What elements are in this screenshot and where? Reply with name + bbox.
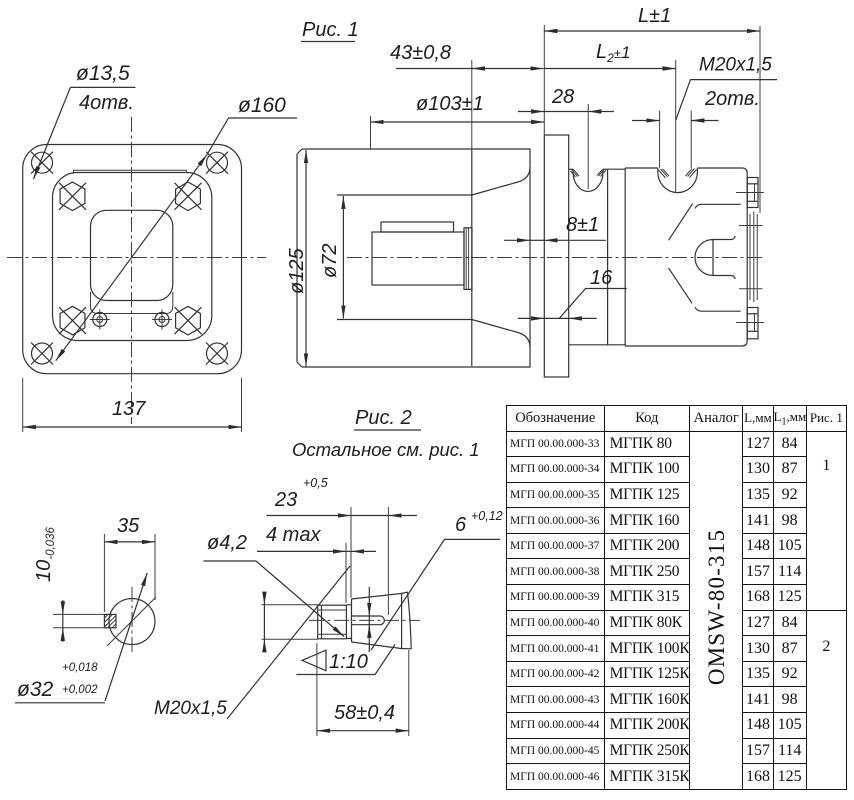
gasket/body rounded outline — [53, 173, 212, 341]
taper 1:10 cone lower — [352, 642, 402, 649]
rear bottom boss — [747, 308, 758, 339]
gasket top parting notch — [74, 170, 187, 172]
dimension 4max (outside arrows) — [257, 550, 346, 552]
svg-text:ø72: ø72 — [319, 244, 341, 278]
central opening rounded square — [91, 210, 173, 300]
title underline — [301, 41, 355, 43]
dimension o125 vertical — [305, 150, 307, 367]
flange outer square outline — [23, 145, 242, 374]
M20 diameter dimension (outside arrows) — [263, 593, 265, 605]
svg-text:10-0,036: 10-0,036 — [33, 527, 57, 582]
cavity lower line — [695, 307, 741, 311]
dimension 43+-0,8 line — [472, 68, 544, 70]
plate hole centerline lower — [739, 288, 763, 290]
o4,2 leader — [256, 561, 344, 637]
rear valve plate — [750, 212, 757, 303]
corner hole top-left (o13,5) — [31, 152, 53, 174]
svg-text:58±0,4: 58±0,4 — [334, 702, 395, 724]
shaft key — [381, 222, 454, 232]
bell inner bore face — [471, 150, 473, 366]
taper label underline and leader — [296, 645, 395, 675]
flange face extension line — [543, 25, 545, 135]
svg-text:ø125: ø125 — [286, 248, 308, 294]
corner hole bottom-right — [206, 343, 228, 365]
flange horizontal centerline — [7, 257, 266, 259]
dimension L2+-1 line — [544, 68, 675, 70]
svg-text:6: 6 — [455, 514, 467, 536]
svg-text:43±0,8: 43±0,8 — [390, 42, 451, 64]
main axis centerline — [347, 257, 763, 259]
dimension 16 (outside arrows) — [518, 317, 544, 319]
hex bolt top-left — [59, 182, 86, 211]
shaft section circle — [109, 599, 155, 645]
port 2 thread recess on housing (M20x1,5) — [658, 168, 698, 193]
L right extension line — [759, 26, 761, 213]
dimension 28 (outside arrows) — [518, 111, 544, 113]
o72 bore top line — [337, 194, 472, 196]
svg-text:M20x1,5: M20x1,5 — [154, 698, 227, 719]
vertical analog label OMSW-80-315 — [704, 529, 730, 685]
svg-text:23: 23 — [274, 489, 297, 511]
M20 label shelf and leader — [676, 80, 777, 120]
35 extension lines — [103, 534, 105, 612]
svg-text:+0,5: +0,5 — [303, 476, 328, 490]
svg-text:ø32: ø32 — [17, 678, 54, 701]
keyway extension lines — [53, 613, 104, 615]
taper symbol triangle — [302, 650, 326, 671]
o32 label underline — [15, 702, 105, 704]
bell cone upper — [472, 167, 530, 195]
circle vertical centerline — [131, 587, 133, 655]
bottom pocket line between small bolts — [91, 292, 173, 314]
o13,5 label shelf and leader — [34, 87, 136, 179]
137 extension lines — [22, 378, 24, 432]
bell cone lower — [472, 320, 530, 348]
58 extension lines — [316, 643, 318, 736]
relief neck groove — [346, 605, 351, 639]
port1 center extension line — [587, 104, 589, 189]
svg-text:137: 137 — [112, 398, 146, 420]
threaded end M20 — [318, 605, 347, 639]
shaft large end block — [401, 592, 411, 649]
dimension 6+0,12 (outside arrows) — [368, 587, 370, 616]
output shaft — [372, 232, 464, 285]
shaft axis centerline — [309, 619, 420, 621]
port2 center extension line — [675, 60, 677, 193]
svg-text:4 max: 4 max — [266, 524, 321, 546]
svg-text:35: 35 — [117, 515, 140, 537]
dimension 58+-0,4 — [317, 730, 409, 732]
dimension 23+0,5 (outside arrows) — [266, 515, 351, 517]
taper 1:10 cone upper — [352, 594, 402, 600]
shaft washer / collar — [464, 228, 472, 290]
svg-text:ø4,2: ø4,2 — [207, 532, 247, 554]
M20 thread dimension arrows — [632, 120, 660, 122]
circle 45deg centerline — [107, 597, 156, 646]
rear bottom boss centerline — [736, 322, 764, 324]
svg-text:+0,018: +0,018 — [62, 662, 98, 674]
M20 leader — [227, 566, 350, 719]
small bolt left — [90, 310, 110, 330]
internal chevron upper — [669, 204, 693, 241]
key hatching — [104, 614, 116, 627]
title underline — [354, 429, 421, 431]
plate hole centerline upper — [739, 225, 763, 227]
small bolt right — [152, 310, 172, 330]
M20 diameter extension lines — [262, 604, 319, 606]
dimension o103+-1 line — [371, 121, 545, 123]
svg-text:16: 16 — [590, 267, 613, 289]
svg-text:1:10: 1:10 — [329, 651, 368, 673]
ring section — [608, 168, 626, 346]
o160 leader and shelf — [207, 118, 297, 154]
dimension 35 — [104, 541, 155, 543]
svg-text:M20x1,5: M20x1,5 — [699, 55, 772, 76]
svg-text:8±1: 8±1 — [566, 214, 599, 236]
pin hole slot o4,2 — [352, 616, 384, 625]
svg-text:ø160: ø160 — [238, 94, 286, 117]
o72 bore bottom line — [337, 319, 472, 321]
dimension 137 line — [23, 426, 242, 428]
svg-text:Рис. 2: Рис. 2 — [355, 407, 412, 429]
port 2 hatching — [659, 169, 697, 179]
rear top boss — [747, 178, 758, 208]
mounting flange plate — [544, 135, 568, 377]
flange vertical centerline — [131, 117, 133, 424]
rear housing outline — [625, 168, 747, 346]
spline socket horseshoe — [695, 236, 735, 279]
6+0,12 shelf and leader — [371, 539, 500, 650]
dimension L+-1 line — [544, 30, 760, 32]
dimension 10-0,036 (outside arrows) — [62, 600, 64, 614]
o160 bolt-circle diagonal with arrows — [56, 154, 207, 360]
o32 leader with arrow — [105, 573, 147, 701]
taper cone left face — [351, 599, 353, 642]
M20 thread extension lines — [659, 111, 661, 168]
cavity upper line — [695, 204, 741, 208]
corner hole top-right — [206, 152, 228, 174]
dimension o72 vertical — [342, 196, 344, 319]
extension lines 4max / 23 — [345, 543, 347, 603]
svg-text:+0,12: +0,12 — [471, 509, 503, 523]
svg-text:2отв.: 2отв. — [704, 88, 760, 110]
svg-text:ø103±1: ø103±1 — [416, 93, 484, 115]
svg-text:Рис. 1: Рис. 1 — [302, 19, 359, 41]
bell housing outline o125 — [297, 149, 530, 367]
keyway key cross-section — [104, 614, 116, 627]
svg-text:4отв.: 4отв. — [79, 92, 134, 114]
svg-text:ø13,5: ø13,5 — [76, 62, 130, 85]
svg-text:L±1: L±1 — [638, 5, 671, 27]
svg-text:+0,002: +0,002 — [62, 684, 98, 696]
hex bolt top-right — [175, 182, 202, 211]
rear top boss centerline — [736, 192, 764, 194]
svg-text:Остальное см. рис. 1: Остальное см. рис. 1 — [292, 439, 480, 460]
hex bolt bottom-left — [59, 306, 86, 335]
corner hole bottom-left — [31, 343, 53, 365]
16 leader shelf — [559, 289, 626, 319]
spacer section — [569, 169, 608, 345]
svg-text:L2±1: L2±1 — [596, 41, 630, 65]
43 extension line — [471, 60, 473, 150]
internal chevron lower — [669, 268, 693, 303]
port 1 thread recess on spacer — [573, 169, 603, 191]
hex bolt bottom-right — [175, 306, 202, 335]
o103 left extension — [370, 116, 372, 149]
svg-text:28: 28 — [551, 86, 574, 108]
port 1 hatching — [571, 170, 607, 178]
dimension 8+-1 (outside arrows) — [504, 239, 530, 241]
